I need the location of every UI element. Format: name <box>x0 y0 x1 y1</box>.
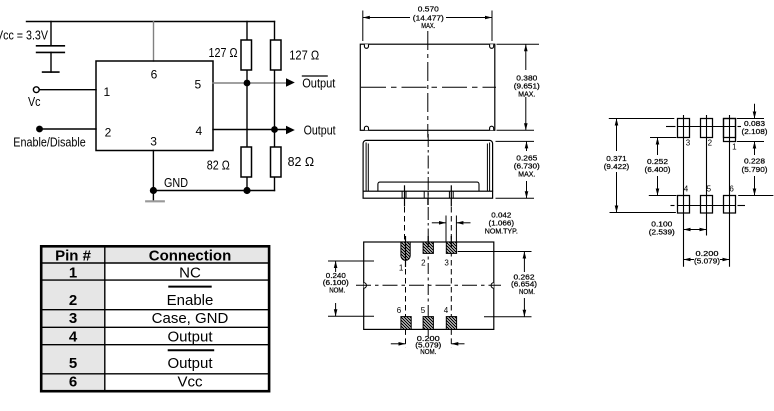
svg-text:(2.108): (2.108) <box>742 129 768 136</box>
svg-text:2: 2 <box>708 138 713 147</box>
svg-text:MAX.: MAX. <box>518 172 535 179</box>
svg-text:1: 1 <box>69 265 77 282</box>
svg-text:(5.790): (5.790) <box>742 167 768 174</box>
svg-text:Output: Output <box>304 124 336 138</box>
svg-text:2: 2 <box>69 292 77 309</box>
svg-text:(2.539): (2.539) <box>649 229 675 236</box>
svg-text:0.228: 0.228 <box>744 159 765 166</box>
svg-text:NOM.TYP.: NOM.TYP. <box>485 228 518 235</box>
svg-text:0.265: 0.265 <box>516 155 537 162</box>
svg-text:5: 5 <box>194 78 201 92</box>
svg-text:5: 5 <box>69 355 77 372</box>
svg-text:MAX.: MAX. <box>421 23 435 30</box>
svg-text:(6.654): (6.654) <box>511 282 537 289</box>
svg-text:82 Ω: 82 Ω <box>288 155 315 169</box>
svg-text:Pin #: Pin # <box>55 247 92 264</box>
svg-text:(5.079): (5.079) <box>694 259 720 266</box>
svg-text:127 Ω: 127 Ω <box>209 46 238 60</box>
svg-text:Output: Output <box>167 355 213 372</box>
svg-text:0.570: 0.570 <box>418 7 439 14</box>
svg-text:(9.422): (9.422) <box>604 164 630 171</box>
svg-text:0.252: 0.252 <box>647 159 668 166</box>
svg-text:4: 4 <box>684 184 689 193</box>
svg-text:(14.477): (14.477) <box>413 16 444 23</box>
svg-text:2: 2 <box>421 258 426 267</box>
svg-text:6: 6 <box>729 184 734 193</box>
svg-text:MAX.: MAX. <box>518 92 535 99</box>
svg-text:6: 6 <box>151 67 158 81</box>
svg-text:5: 5 <box>421 306 426 315</box>
svg-text:NOM.: NOM. <box>519 289 535 296</box>
svg-text:4: 4 <box>69 329 78 346</box>
svg-text:1: 1 <box>103 85 110 99</box>
svg-text:3: 3 <box>150 134 157 148</box>
svg-text:Vcc = 3.3V: Vcc = 3.3V <box>0 28 49 42</box>
svg-text:1: 1 <box>732 142 737 151</box>
svg-text:NOM.: NOM. <box>329 287 345 294</box>
svg-text:127 Ω: 127 Ω <box>289 48 319 62</box>
svg-text:Enable: Enable <box>167 292 214 309</box>
svg-text:Case, GND: Case, GND <box>152 310 229 327</box>
svg-text:1: 1 <box>399 264 404 273</box>
svg-text:6: 6 <box>397 306 402 315</box>
svg-text:3: 3 <box>69 310 77 327</box>
svg-text:0.100: 0.100 <box>651 221 672 228</box>
svg-text:3: 3 <box>444 258 449 267</box>
svg-text:(9.651): (9.651) <box>514 84 540 91</box>
svg-text:0.240: 0.240 <box>326 273 346 280</box>
svg-text:5: 5 <box>707 184 712 193</box>
svg-text:(6.730): (6.730) <box>514 164 540 171</box>
svg-text:0.380: 0.380 <box>516 76 537 83</box>
svg-text:4: 4 <box>195 124 202 138</box>
svg-text:0.200: 0.200 <box>696 251 719 258</box>
svg-text:NC: NC <box>179 265 201 282</box>
svg-text:Connection: Connection <box>149 247 232 264</box>
svg-text:0.371: 0.371 <box>606 156 627 163</box>
svg-text:0.262: 0.262 <box>514 275 535 282</box>
svg-text:82 Ω: 82 Ω <box>207 158 230 172</box>
svg-text:Enable/Disable: Enable/Disable <box>13 135 86 149</box>
svg-text:6: 6 <box>69 374 77 391</box>
svg-text:2: 2 <box>105 126 112 140</box>
svg-text:(6.100): (6.100) <box>323 280 349 287</box>
svg-text:Vcc: Vcc <box>177 374 203 391</box>
svg-text:0.083: 0.083 <box>744 121 765 128</box>
svg-text:(1.066): (1.066) <box>489 220 515 227</box>
svg-text:GND: GND <box>164 176 188 190</box>
svg-text:3: 3 <box>686 138 691 147</box>
svg-text:Output: Output <box>167 329 213 346</box>
svg-text:Vc: Vc <box>28 95 41 109</box>
svg-text:0.042: 0.042 <box>491 212 511 219</box>
svg-text:Output: Output <box>302 76 336 90</box>
svg-text:(6.400): (6.400) <box>645 167 671 174</box>
svg-text:NOM.: NOM. <box>420 349 436 356</box>
svg-text:4: 4 <box>444 306 449 315</box>
